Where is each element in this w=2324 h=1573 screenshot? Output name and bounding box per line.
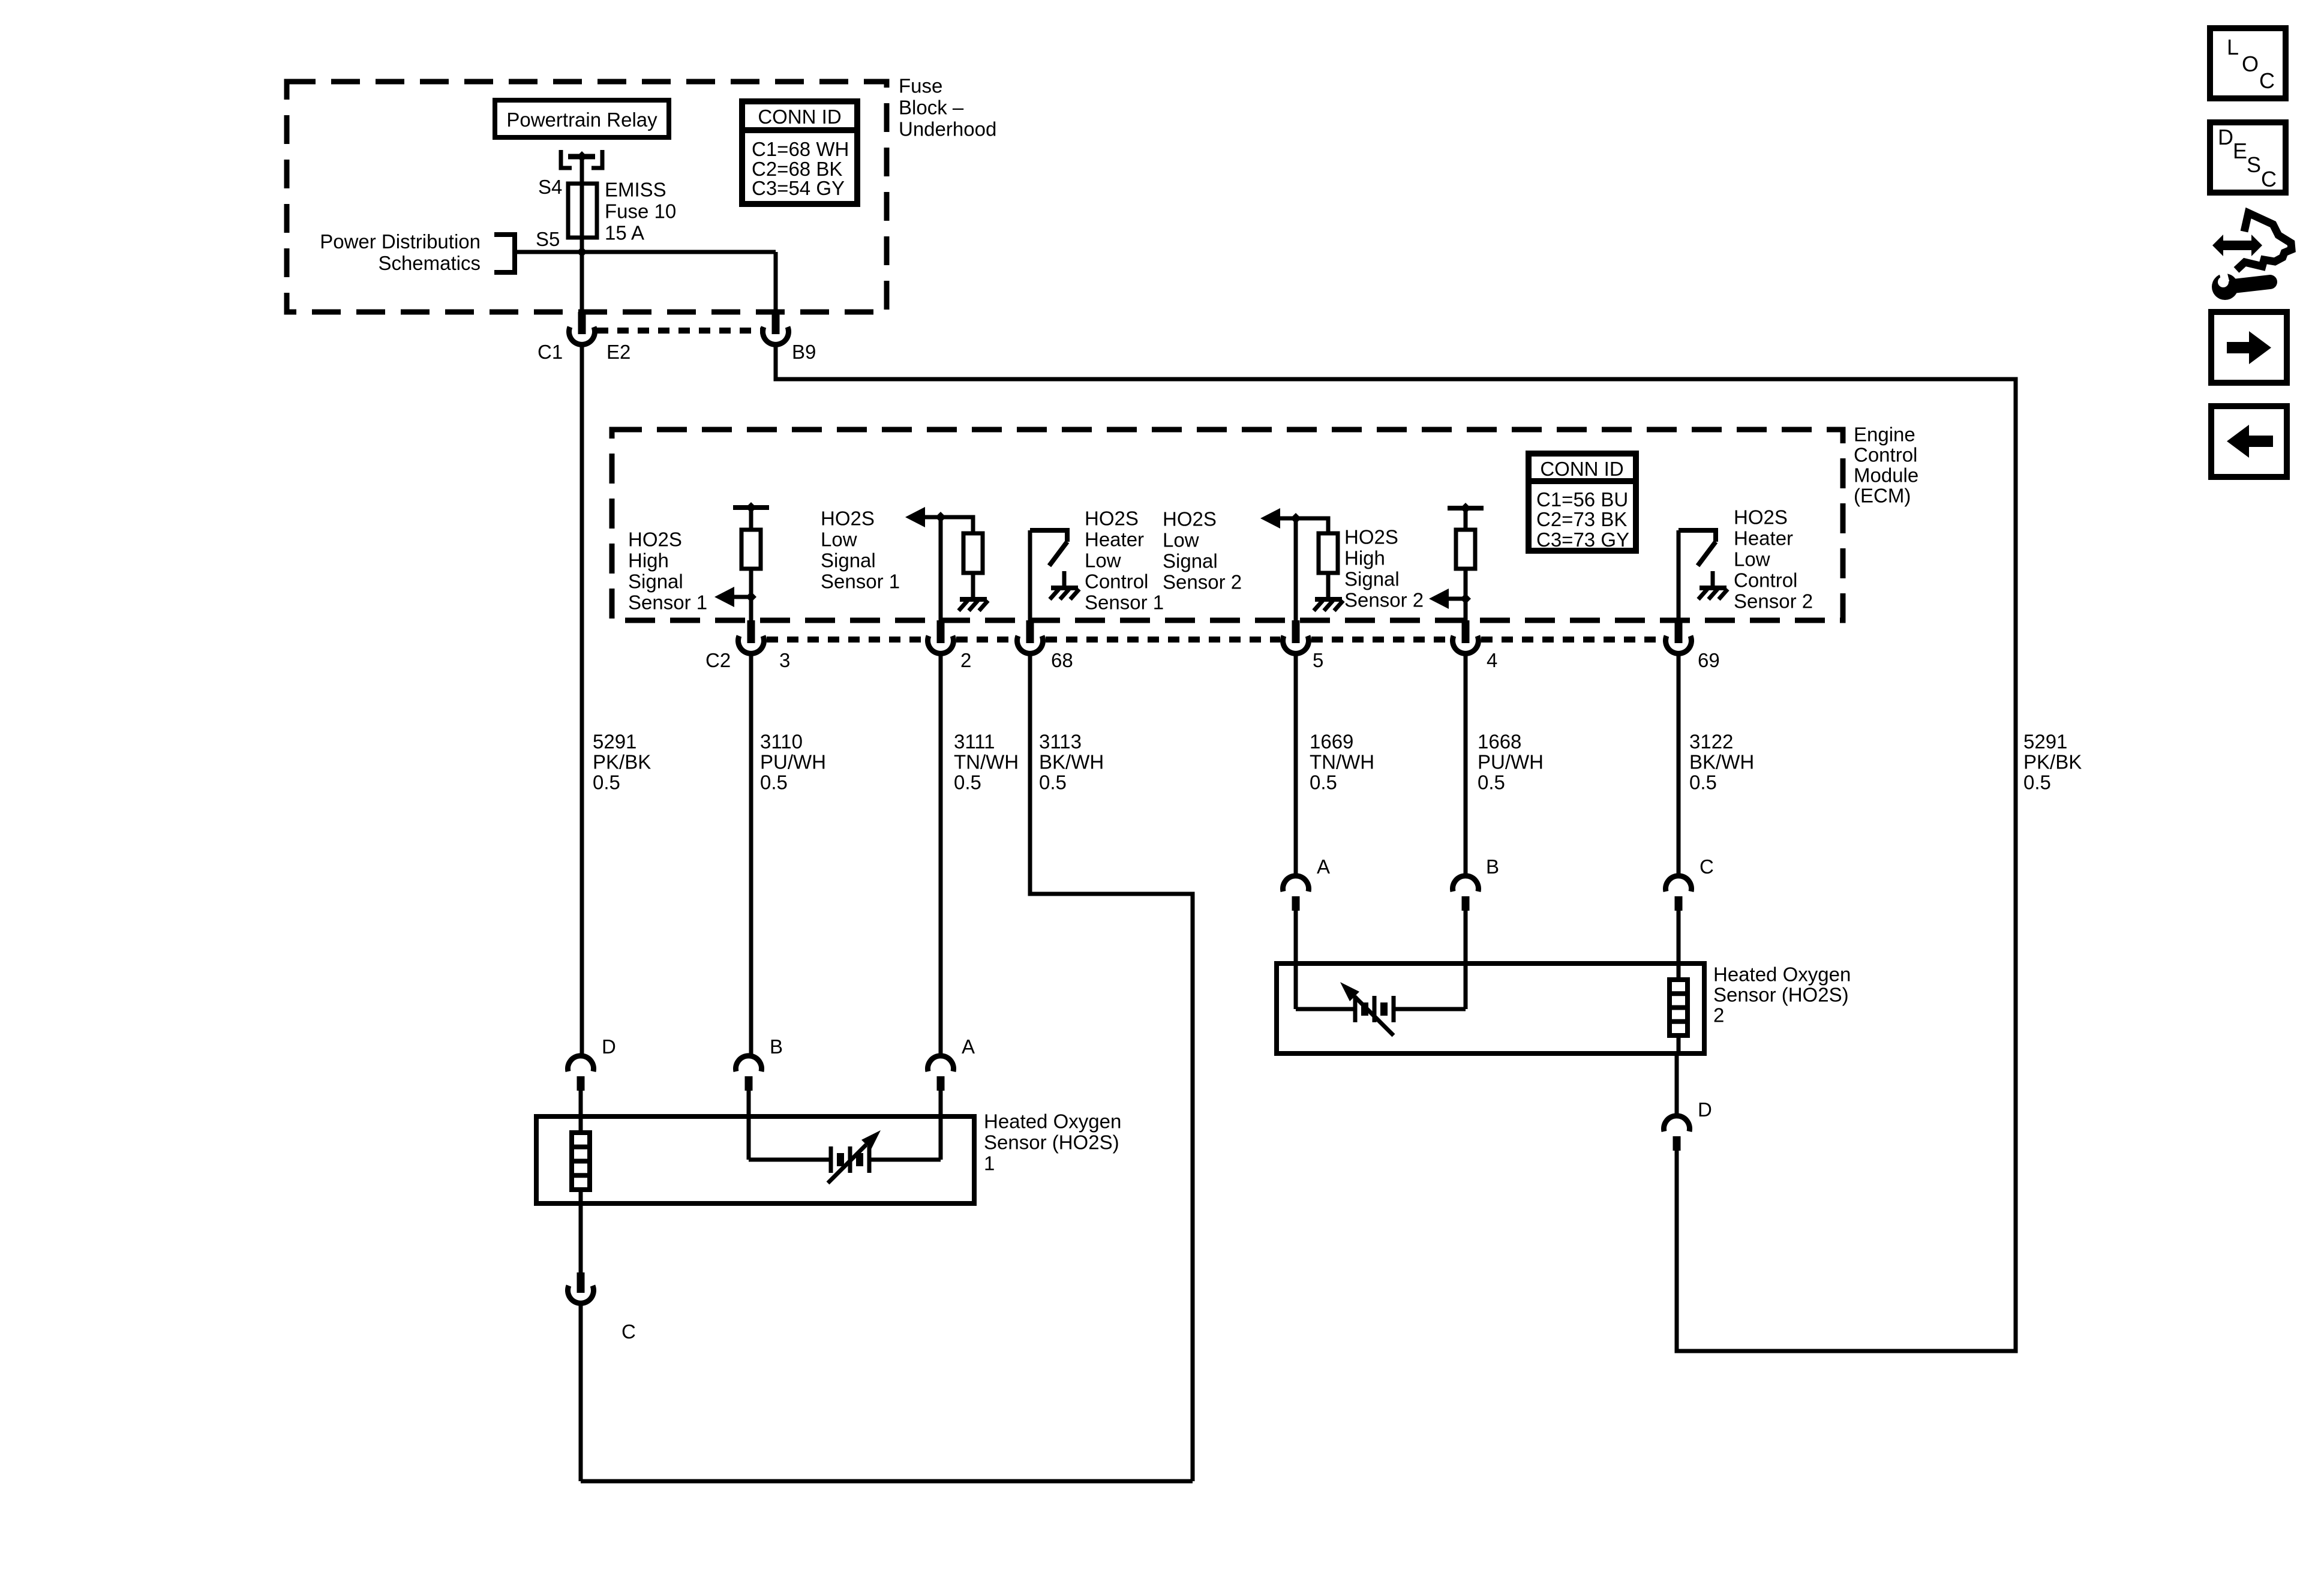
ground ECM pin5 branch — [1326, 573, 1331, 599]
wire pin2 down — [939, 517, 943, 624]
connector HO2S2 B — [1453, 876, 1479, 891]
ECM pin3 T-bar — [733, 505, 769, 510]
svg-text:Sensor 2: Sensor 2 — [1344, 589, 1424, 611]
svg-text:HO2S: HO2S — [1163, 508, 1217, 530]
svg-text:Signal: Signal — [1344, 568, 1400, 590]
connector ECM pin 4 — [1462, 620, 1470, 643]
heater element HO2S2 — [1670, 980, 1688, 1035]
connector ECM pin 69 — [1675, 620, 1683, 643]
wire battery left HO2S2 — [1296, 1007, 1353, 1011]
wire 1668 (pin4 down) — [1464, 653, 1468, 878]
svg-text:3: 3 — [779, 649, 790, 671]
connector HO2S2 A — [1283, 876, 1309, 891]
svg-text:1669: 1669 — [1310, 731, 1353, 753]
wire A into HO2S2 — [1294, 911, 1298, 1009]
wire to connector B9 — [774, 252, 778, 314]
wire 3122 (pin69 down) — [1677, 653, 1681, 878]
svg-text:Engine: Engine — [1854, 424, 1915, 446]
heater element HO2S1 — [572, 1133, 590, 1190]
svg-text:Fuse 10: Fuse 10 — [605, 200, 676, 223]
svg-text:Heated Oxygen: Heated Oxygen — [984, 1110, 1121, 1133]
svg-text:C: C — [621, 1320, 636, 1343]
icon back arrow — [2249, 436, 2273, 447]
node pin2 junction — [935, 512, 946, 523]
wire A into HO2S1 — [939, 1091, 943, 1160]
fuse F10 EMISS — [568, 184, 597, 238]
wire fuse to connector C1 — [580, 238, 584, 314]
svg-text:0.5: 0.5 — [1310, 772, 1337, 794]
svg-text:2: 2 — [1713, 1004, 1724, 1026]
svg-text:C1=68 WH: C1=68 WH — [752, 138, 849, 160]
svg-text:Block –: Block – — [899, 97, 964, 119]
wire 3113 (pin68 jog) — [1030, 653, 1193, 1481]
wire pin4 resistor to pin — [1464, 569, 1468, 624]
svg-text:O: O — [2242, 52, 2259, 76]
svg-text:A: A — [1317, 855, 1330, 878]
svg-text:Underhood: Underhood — [899, 118, 996, 140]
icon vehicle double arrow — [2212, 235, 2262, 256]
svg-text:C: C — [2259, 68, 2275, 93]
svg-text:HO2S: HO2S — [1344, 526, 1398, 548]
svg-text:EMISS: EMISS — [605, 179, 666, 201]
svg-text:S: S — [2247, 152, 2261, 177]
svg-text:5: 5 — [1313, 649, 1323, 671]
svg-text:High: High — [628, 550, 669, 572]
relay contact bracket — [561, 150, 572, 168]
harness dotted line ECM C2 — [1481, 637, 1663, 643]
connector ECM pin 68 — [1026, 620, 1034, 643]
connector ECM pin 5 — [1292, 620, 1300, 643]
svg-text:69: 69 — [1698, 649, 1720, 671]
svg-text:C2=73 BK: C2=73 BK — [1536, 508, 1627, 530]
heated oxygen sensor 1 box — [536, 1116, 974, 1203]
wire battery right HO2S2 — [1394, 1007, 1466, 1011]
arrow HO2S low signal sensor 1 — [905, 507, 925, 527]
conn id box ECM — [1529, 454, 1636, 551]
wire 3111 (pin2 down) — [939, 653, 943, 1058]
ground heater control 1 — [1062, 571, 1067, 588]
wire 3110 (pin3 down) — [749, 653, 753, 1058]
node pin3 junction — [746, 592, 756, 602]
svg-text:D: D — [1698, 1098, 1712, 1121]
wire pin69 up — [1677, 530, 1681, 624]
svg-text:Sensor (HO2S): Sensor (HO2S) — [1713, 984, 1849, 1006]
connector ECM pin 2 — [937, 620, 945, 643]
svg-text:HO2S: HO2S — [628, 529, 682, 551]
arrow HO2S low signal sensor 2 — [1260, 508, 1280, 529]
svg-text:Sensor (HO2S): Sensor (HO2S) — [984, 1131, 1119, 1154]
svg-text:S5: S5 — [536, 228, 560, 250]
node pin3 top — [746, 502, 756, 513]
svg-text:A: A — [962, 1035, 975, 1058]
svg-text:Heater: Heater — [1734, 527, 1793, 550]
connector C HO2S1 — [577, 1272, 585, 1293]
svg-text:E: E — [2233, 139, 2247, 163]
svg-text:D: D — [2218, 125, 2233, 149]
svg-text:Low: Low — [1734, 548, 1770, 571]
connector HO2S1 A — [928, 1056, 954, 1071]
wire 1669 (pin5 down) — [1294, 653, 1298, 878]
wire 5291 right (B9 loop) — [776, 344, 2016, 1351]
svg-text:HO2S: HO2S — [1085, 508, 1139, 530]
icon vehicle outline — [2236, 213, 2292, 270]
svg-text:Low: Low — [1163, 529, 1199, 551]
svg-text:15 A: 15 A — [605, 222, 644, 244]
svg-text:Low: Low — [1085, 550, 1121, 572]
svg-text:Powertrain Relay: Powertrain Relay — [506, 109, 657, 131]
wire relay contact to fuse — [580, 157, 584, 184]
wire D into HO2S1 — [579, 1091, 583, 1133]
svg-text:B: B — [1486, 855, 1499, 878]
connector B9 — [772, 312, 780, 334]
svg-text:C: C — [1700, 855, 1714, 878]
svg-text:1668: 1668 — [1478, 731, 1521, 753]
wire B into HO2S1 — [747, 1091, 751, 1160]
wire pin68 up — [1028, 530, 1032, 624]
svg-text:3110: 3110 — [760, 731, 803, 753]
connector D HO2S2 — [1664, 1116, 1690, 1131]
connector HO2S2 C — [1666, 876, 1692, 891]
wire battery right HO2S1 — [869, 1158, 941, 1162]
icon wrench — [2212, 274, 2238, 300]
svg-text:Signal: Signal — [1163, 550, 1218, 572]
icon forward arrow box — [2211, 312, 2287, 383]
arrow HO2S high signal sensor 1 — [714, 587, 734, 607]
connector HO2S1 D — [568, 1056, 594, 1071]
svg-text:Module: Module — [1854, 464, 1918, 487]
ECM pin4 T-bar — [1448, 506, 1484, 511]
svg-text:S4: S4 — [538, 176, 562, 198]
powertrain relay box — [495, 100, 669, 137]
node pin4 junction — [1460, 593, 1471, 604]
svg-text:B: B — [770, 1035, 783, 1058]
wire B into HO2S2 — [1464, 911, 1468, 1009]
svg-text:BK/WH: BK/WH — [1039, 751, 1104, 773]
svg-text:68: 68 — [1051, 649, 1073, 671]
svg-text:Schematics: Schematics — [378, 252, 481, 274]
harness dotted line ECM C2 — [767, 637, 925, 643]
wire pin5 branch — [1296, 518, 1328, 533]
harness dotted line E2-B9 — [597, 328, 761, 334]
svg-text:3122: 3122 — [1689, 731, 1733, 753]
svg-text:0.5: 0.5 — [2023, 772, 2051, 794]
svg-text:0.5: 0.5 — [1689, 772, 1717, 794]
svg-text:Control: Control — [1085, 571, 1148, 593]
svg-text:HO2S: HO2S — [1734, 506, 1788, 529]
wire bottom left return — [581, 1479, 1193, 1484]
switch HO2S heater low control 2 — [1679, 530, 1716, 542]
svg-text:TN/WH: TN/WH — [954, 751, 1019, 773]
wire pin4 top to resistor — [1464, 508, 1468, 530]
svg-text:C3=54 GY: C3=54 GY — [752, 177, 845, 199]
svg-text:Fuse: Fuse — [899, 75, 942, 97]
svg-text:5291: 5291 — [2023, 731, 2067, 753]
svg-text:0.5: 0.5 — [593, 772, 620, 794]
connector ECM C2 pin 3 — [747, 620, 755, 643]
wire 5291 left (E2 to HO2S1 D) — [580, 344, 584, 1058]
fuse block underhood dashed box — [287, 82, 887, 312]
wire heater to box bottom HO2S2 — [1677, 1035, 1681, 1055]
junction S4 dot — [577, 151, 587, 162]
svg-text:B9: B9 — [792, 341, 816, 363]
svg-text:High: High — [1344, 547, 1385, 569]
variable arrow HO2S1 — [828, 1145, 866, 1183]
resistor HO2S low signal 1 — [963, 533, 983, 573]
svg-text:E2: E2 — [606, 341, 630, 363]
svg-text:Low: Low — [821, 529, 857, 551]
power distribution bracket — [494, 235, 515, 272]
svg-text:Sensor 2: Sensor 2 — [1734, 590, 1813, 613]
svg-text:3111: 3111 — [954, 731, 995, 753]
harness dotted line ECM C2 — [1046, 637, 1280, 643]
svg-text:0.5: 0.5 — [1478, 772, 1505, 794]
svg-text:C1: C1 — [538, 341, 563, 363]
svg-text:Sensor 2: Sensor 2 — [1163, 571, 1242, 593]
icon DESC box — [2210, 122, 2286, 193]
svg-text:0.5: 0.5 — [954, 772, 981, 794]
node pin5 junction — [1290, 513, 1301, 524]
svg-text:4: 4 — [1487, 649, 1497, 671]
svg-text:0.5: 0.5 — [760, 772, 788, 794]
switch HO2S heater low control 1 — [1030, 530, 1067, 542]
wire S5 horizontal — [515, 250, 776, 254]
connector C1 E2 — [578, 312, 586, 334]
heated oxygen sensor 2 box — [1277, 963, 1704, 1053]
harness dotted line ECM C2 — [956, 637, 1014, 643]
svg-text:Signal: Signal — [821, 550, 876, 572]
svg-text:Control: Control — [1734, 569, 1797, 592]
variable battery HO2S2 — [1353, 996, 1358, 1022]
svg-text:PK/BK: PK/BK — [2023, 751, 2082, 773]
variable battery HO2S1 — [829, 1146, 833, 1173]
ground heater control 2 — [1711, 571, 1715, 588]
resistor HO2S low signal 2 — [1319, 533, 1338, 573]
svg-text:L: L — [2227, 35, 2239, 59]
svg-text:D: D — [602, 1035, 616, 1058]
wire C into HO2S2 — [1677, 911, 1681, 980]
svg-text:5291: 5291 — [593, 731, 636, 753]
svg-text:Power Distribution: Power Distribution — [320, 230, 481, 253]
arrow HO2S high signal sensor 2 — [1429, 589, 1449, 609]
svg-text:CONN ID: CONN ID — [1540, 458, 1623, 480]
variable arrow HO2S2 — [1355, 996, 1394, 1035]
svg-text:PU/WH: PU/WH — [760, 751, 826, 773]
wire pin3 top to resistor — [749, 508, 753, 530]
svg-text:3113: 3113 — [1039, 731, 1082, 753]
wire pin3 resistor to pin — [749, 569, 753, 624]
icon back arrow box — [2211, 406, 2287, 477]
wire C down — [579, 1303, 583, 1481]
svg-text:Heater: Heater — [1085, 529, 1144, 551]
resistor HO2S high signal 1 — [741, 530, 761, 569]
svg-text:C: C — [2261, 167, 2277, 191]
svg-text:PK/BK: PK/BK — [593, 751, 651, 773]
svg-text:C1=56 BU: C1=56 BU — [1536, 488, 1628, 511]
svg-text:Sensor 1: Sensor 1 — [628, 592, 707, 614]
wire battery left HO2S1 — [749, 1158, 829, 1162]
svg-text:CONN ID: CONN ID — [758, 106, 841, 128]
svg-text:Sensor 1: Sensor 1 — [821, 571, 900, 593]
svg-text:BK/WH: BK/WH — [1689, 751, 1754, 773]
resistor HO2S high signal 2 — [1456, 530, 1475, 569]
conn id box fuse block — [742, 101, 857, 204]
svg-text:1: 1 — [984, 1152, 995, 1175]
engine control module dashed box — [612, 430, 1843, 620]
wire heater to connector C — [579, 1190, 583, 1274]
svg-text:C2: C2 — [705, 649, 731, 671]
harness dotted line ECM C2 — [1311, 637, 1450, 643]
icon LOC box — [2210, 28, 2286, 98]
svg-text:Signal: Signal — [628, 571, 683, 593]
svg-text:PU/WH: PU/WH — [1478, 751, 1544, 773]
ground ECM pin2 branch — [971, 573, 975, 599]
svg-text:C3=73 GY: C3=73 GY — [1536, 529, 1629, 551]
svg-text:(ECM): (ECM) — [1854, 485, 1911, 507]
node pin4 top — [1460, 503, 1471, 514]
svg-text:Sensor 1: Sensor 1 — [1085, 592, 1164, 614]
junction S5 dot — [577, 247, 587, 257]
svg-text:Control: Control — [1854, 444, 1917, 466]
svg-text:HO2S: HO2S — [821, 508, 875, 530]
svg-text:TN/WH: TN/WH — [1310, 751, 1374, 773]
wire pin5 down — [1294, 518, 1298, 624]
svg-text:0.5: 0.5 — [1039, 772, 1067, 794]
svg-text:2: 2 — [960, 649, 971, 671]
icon forward arrow — [2227, 342, 2251, 353]
wire pin2 branch — [941, 517, 973, 533]
connector HO2S1 B — [736, 1056, 762, 1071]
svg-text:Heated Oxygen: Heated Oxygen — [1713, 963, 1851, 986]
